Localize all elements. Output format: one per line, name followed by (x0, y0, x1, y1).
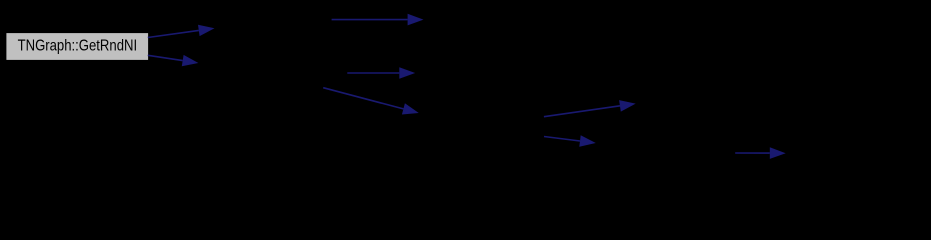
svg-text:TNGraph::GetRndNI: TNGraph::GetRndNI (18, 37, 138, 54)
